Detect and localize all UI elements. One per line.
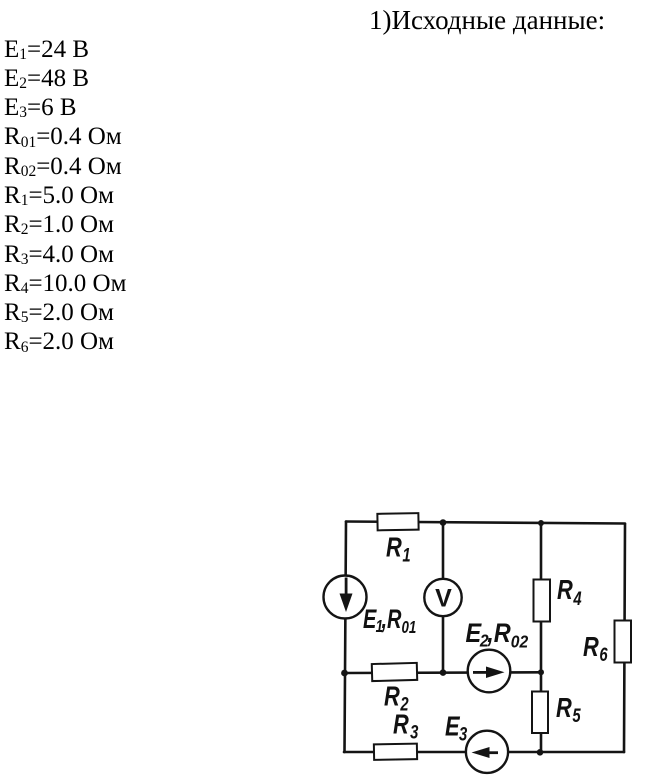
svg-text:02: 02 xyxy=(511,631,529,651)
svg-text:R: R xyxy=(556,692,572,723)
svg-text:R: R xyxy=(557,574,573,605)
svg-text:V: V xyxy=(435,585,452,613)
svg-text:,R: ,R xyxy=(486,619,511,649)
svg-text:6: 6 xyxy=(599,644,608,665)
svg-text:3: 3 xyxy=(459,724,468,745)
svg-text:01: 01 xyxy=(401,618,416,637)
svg-text:R: R xyxy=(393,709,409,740)
svg-text:,R: ,R xyxy=(381,604,402,635)
svg-text:5: 5 xyxy=(572,705,581,726)
svg-text:4: 4 xyxy=(573,588,583,609)
svg-text:R: R xyxy=(384,681,400,712)
svg-text:R: R xyxy=(583,631,599,662)
svg-text:3: 3 xyxy=(410,722,419,743)
svg-text:1: 1 xyxy=(402,545,410,566)
svg-text:R: R xyxy=(386,532,402,563)
